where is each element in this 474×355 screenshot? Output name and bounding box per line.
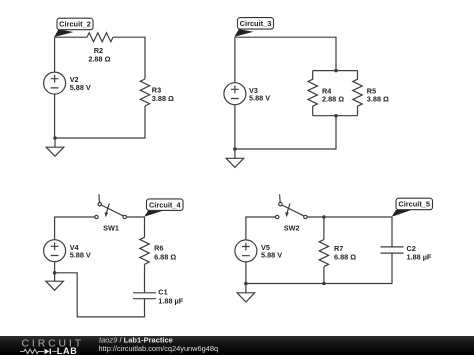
- junction R7 bottom: [322, 282, 326, 286]
- wire down and along bottom to V3: [235, 116, 336, 149]
- junction bottom of parallel pair: [334, 114, 338, 118]
- wire V2 bottom to ground junction: [54, 94, 56, 138]
- resistor R5: [353, 71, 362, 116]
- wire R7 top stub: [323, 217, 325, 240]
- wire node A to R2 left: [55, 36, 87, 38]
- ground circuit3: [226, 149, 244, 167]
- voltage source V4: [44, 240, 66, 262]
- ground circuit5: [237, 284, 255, 303]
- node tag Circuit_2: [54, 18, 93, 37]
- wire bottom rail of R4/R5: [313, 115, 358, 117]
- junction dot circuit5 ground node: [244, 282, 248, 286]
- voltage source V2: [44, 72, 66, 94]
- svg-text:6.88 Ω: 6.88 Ω: [334, 253, 356, 262]
- wire node B across top and down to parallel rail: [235, 37, 336, 70]
- node tag Circuit_5: [392, 198, 433, 217]
- wire V3 top to node B: [234, 37, 236, 82]
- svg-text:Circuit_5: Circuit_5: [398, 200, 430, 209]
- wire R7 bottom stub: [323, 267, 325, 284]
- capacitor C2: [381, 247, 404, 253]
- wire V3 bottom to ground junction: [234, 105, 236, 149]
- svg-text:1.88 µF: 1.88 µF: [158, 296, 183, 305]
- wire V2 top to node A: [54, 37, 56, 72]
- wire node C down to R6: [144, 217, 146, 237]
- svg-text:6.88 Ω: 6.88 Ω: [154, 252, 176, 261]
- svg-text:2.88 Ω: 2.88 Ω: [88, 55, 110, 64]
- svg-text:SW2: SW2: [284, 223, 300, 232]
- wire C1 bottom around to V4 bottom junction: [55, 273, 145, 317]
- node tag Circuit_4: [144, 199, 183, 217]
- wire C2 bottom down and across bottom rail to V5: [246, 253, 392, 283]
- resistor R2: [87, 33, 113, 42]
- voltage source V3: [224, 83, 246, 105]
- svg-text:2.88 Ω: 2.88 Ω: [322, 95, 344, 104]
- junction top of parallel pair: [334, 69, 338, 73]
- svg-text:3.88 Ω: 3.88 Ω: [152, 94, 174, 103]
- svg-text:5.88 V: 5.88 V: [249, 93, 270, 102]
- svg-text:Circuit_4: Circuit_4: [149, 200, 182, 209]
- resistor R4: [308, 71, 317, 116]
- svg-text:C2: C2: [407, 244, 416, 253]
- wire V5 top up and right to SW2 left terminal: [246, 217, 276, 240]
- svg-text:5.88 V: 5.88 V: [261, 251, 282, 260]
- svg-text:1.88 µF: 1.88 µF: [407, 253, 432, 262]
- CircuitLab logo resistor-diode graphic: [20, 349, 57, 353]
- svg-text:R7: R7: [334, 244, 343, 253]
- svg-text:Circuit_2: Circuit_2: [59, 20, 91, 29]
- wire R6 bottom to C1 top: [144, 264, 146, 293]
- resistor R7: [319, 240, 328, 267]
- junction dot circuit2 ground node: [53, 136, 57, 140]
- svg-text:5.88 V: 5.88 V: [70, 250, 91, 259]
- wire R2 right to top-right corner down to R3 top: [113, 37, 145, 79]
- switch SW1: [95, 194, 127, 218]
- wire SW1 right terminal to node C: [126, 216, 144, 218]
- capacitor C1: [133, 293, 156, 299]
- svg-text:3.88 Ω: 3.88 Ω: [367, 95, 389, 104]
- svg-text:5.88 V: 5.88 V: [70, 83, 91, 92]
- junction dot circuit3 ground node: [233, 147, 237, 151]
- wire R3 bottom to bottom-left: [55, 106, 145, 138]
- junction R7 top: [322, 215, 326, 219]
- node tag Circuit_3: [234, 18, 273, 37]
- wire V4 top up and right to SW1 left terminal: [55, 217, 95, 240]
- wire V5 bottom to junction: [245, 262, 247, 284]
- wire node D down to C2 top: [391, 217, 393, 247]
- resistor R3: [140, 79, 149, 106]
- voltage source V5: [235, 240, 257, 262]
- svg-text:R3: R3: [152, 85, 161, 94]
- wire V4 bottom to junction: [54, 262, 56, 273]
- ground circuit2: [46, 138, 64, 156]
- svg-text:LAB: LAB: [57, 346, 78, 355]
- resistor R6: [140, 237, 149, 264]
- wire SW2 right terminal across top to node D: [307, 216, 392, 218]
- svg-text:SW1: SW1: [103, 223, 119, 232]
- svg-text:http://circuitlab.com/cq24yunw: http://circuitlab.com/cq24yunw6g48q: [99, 344, 219, 353]
- svg-text:C1: C1: [158, 288, 167, 297]
- wire top rail of R4/R5: [313, 70, 358, 72]
- svg-text:R6: R6: [154, 244, 163, 253]
- junction dot circuit4 ground node: [53, 271, 57, 275]
- switch SW2: [276, 194, 308, 218]
- svg-text:Circuit_3: Circuit_3: [240, 19, 272, 28]
- ground circuit4: [46, 273, 64, 291]
